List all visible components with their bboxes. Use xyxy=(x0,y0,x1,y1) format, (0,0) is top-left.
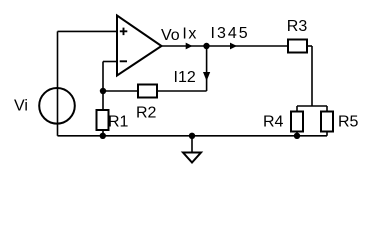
svg-text:R5: R5 xyxy=(338,114,359,131)
svg-text:R2: R2 xyxy=(136,105,157,122)
svg-text:R4: R4 xyxy=(263,114,284,131)
svg-text:I345: I345 xyxy=(211,25,250,42)
svg-text:Vi: Vi xyxy=(14,98,28,115)
svg-text:I12: I12 xyxy=(174,69,196,86)
svg-text:R1: R1 xyxy=(108,113,129,130)
svg-text:R3: R3 xyxy=(287,18,308,35)
svg-text:Vo: Vo xyxy=(161,27,180,44)
svg-text:Ix: Ix xyxy=(182,25,197,42)
